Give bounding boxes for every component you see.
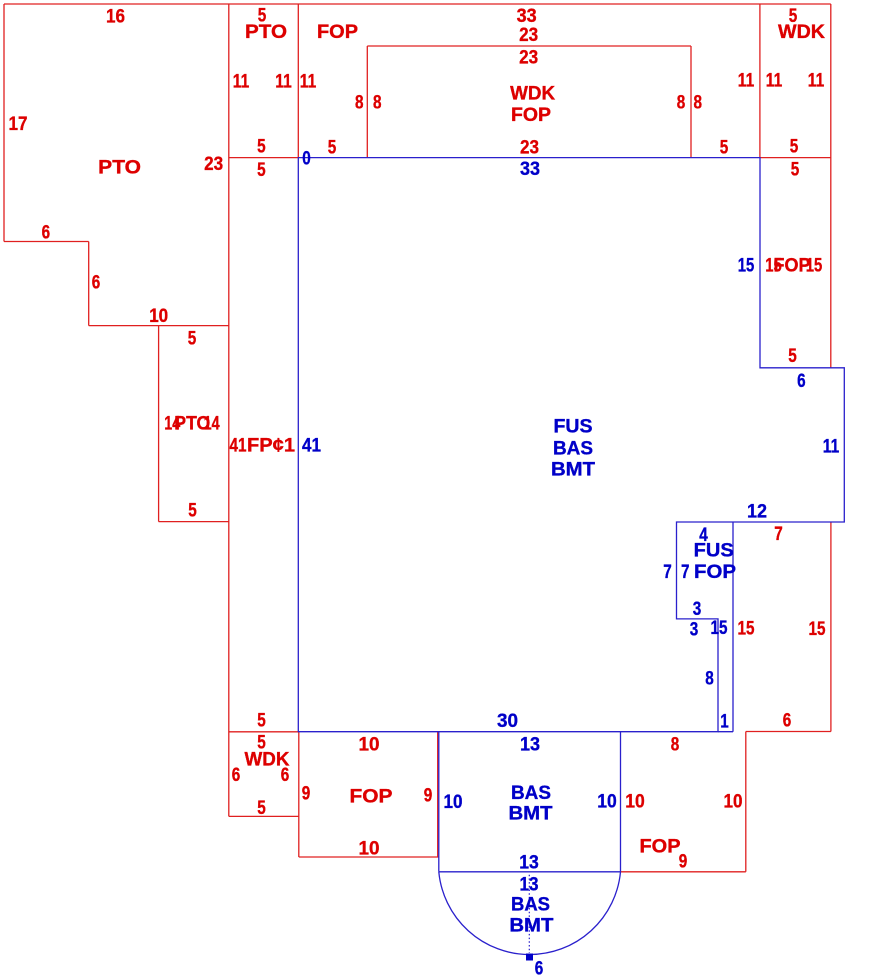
svg-text:9: 9 (679, 852, 688, 873)
svg-text:6: 6 (797, 371, 806, 392)
svg-text:5: 5 (328, 138, 337, 159)
svg-text:8: 8 (373, 93, 382, 114)
svg-text:23: 23 (519, 48, 538, 69)
svg-text:BAS: BAS (511, 783, 551, 804)
svg-text:6: 6 (232, 765, 241, 786)
svg-text:8: 8 (355, 93, 364, 114)
svg-text:6: 6 (281, 765, 290, 786)
svg-text:8: 8 (677, 93, 686, 114)
svg-text:11: 11 (823, 437, 840, 458)
svg-text:10: 10 (149, 306, 168, 327)
svg-text:9: 9 (302, 784, 311, 805)
svg-text:16: 16 (106, 7, 125, 28)
svg-text:15: 15 (738, 619, 755, 640)
svg-text:PTO: PTO (98, 158, 141, 179)
svg-text:5: 5 (188, 501, 197, 522)
svg-text:6: 6 (783, 711, 792, 732)
svg-text:11: 11 (766, 71, 783, 92)
svg-text:FOP: FOP (317, 22, 358, 43)
svg-text:11: 11 (300, 72, 317, 93)
svg-text:8: 8 (705, 669, 714, 690)
svg-text:FP¢1: FP¢1 (247, 436, 295, 457)
svg-text:13: 13 (519, 853, 539, 874)
svg-text:11: 11 (738, 71, 755, 92)
svg-text:5: 5 (790, 137, 799, 158)
svg-text:BMT: BMT (551, 460, 595, 481)
svg-text:5: 5 (720, 138, 729, 159)
svg-text:WDK: WDK (778, 22, 825, 43)
svg-text:11: 11 (233, 72, 250, 93)
svg-text:FOP: FOP (640, 837, 681, 858)
svg-text:5: 5 (257, 160, 266, 181)
svg-text:WDK: WDK (510, 83, 555, 104)
svg-text:23: 23 (519, 25, 538, 46)
svg-text:BAS: BAS (511, 895, 550, 916)
svg-text:6: 6 (535, 959, 544, 980)
svg-text:15: 15 (806, 256, 823, 277)
svg-text:5: 5 (257, 798, 266, 819)
svg-text:FOP: FOP (350, 787, 393, 808)
svg-text:11: 11 (275, 72, 292, 93)
svg-text:FUS: FUS (554, 417, 593, 438)
svg-text:23: 23 (204, 154, 223, 175)
svg-text:7: 7 (663, 562, 672, 583)
svg-text:13: 13 (520, 735, 540, 756)
svg-text:10: 10 (625, 792, 645, 813)
svg-text:17: 17 (9, 114, 28, 135)
svg-text:14: 14 (204, 414, 220, 435)
svg-text:1: 1 (720, 712, 729, 733)
svg-text:3: 3 (690, 620, 699, 641)
svg-text:41: 41 (230, 436, 247, 457)
svg-text:10: 10 (359, 735, 380, 756)
svg-text:13: 13 (520, 875, 539, 896)
svg-text:3: 3 (693, 599, 702, 620)
svg-text:11: 11 (808, 71, 825, 92)
svg-text:7: 7 (774, 524, 783, 545)
svg-text:15: 15 (711, 618, 728, 639)
svg-text:10: 10 (724, 792, 743, 813)
svg-text:6: 6 (92, 273, 101, 294)
svg-text:6: 6 (42, 223, 51, 244)
svg-text:5: 5 (791, 160, 800, 181)
svg-text:8: 8 (693, 93, 702, 114)
svg-text:10: 10 (359, 839, 380, 860)
svg-text:33: 33 (520, 159, 540, 180)
svg-text:5: 5 (257, 137, 266, 158)
svg-text:FUS: FUS (694, 541, 734, 562)
svg-text:8: 8 (671, 735, 680, 756)
svg-text:PTO: PTO (245, 22, 287, 43)
svg-text:7: 7 (681, 562, 690, 583)
svg-text:5: 5 (257, 711, 266, 732)
svg-text:41: 41 (302, 436, 321, 457)
svg-text:15: 15 (809, 619, 826, 640)
svg-text:5: 5 (788, 346, 797, 367)
svg-text:33: 33 (517, 6, 537, 27)
svg-text:FOP: FOP (511, 105, 551, 126)
svg-text:15: 15 (738, 256, 755, 277)
svg-text:BMT: BMT (509, 916, 553, 937)
svg-text:10: 10 (597, 792, 617, 813)
svg-text:10: 10 (444, 792, 463, 813)
svg-text:12: 12 (747, 502, 767, 523)
svg-text:9: 9 (424, 786, 433, 807)
svg-text:BAS: BAS (553, 439, 593, 460)
svg-text:FOP: FOP (694, 562, 736, 583)
svg-text:23: 23 (520, 138, 539, 159)
svg-text:BMT: BMT (509, 804, 553, 825)
svg-text:0: 0 (302, 149, 311, 170)
svg-text:5: 5 (188, 329, 197, 350)
svg-text:30: 30 (497, 711, 518, 732)
